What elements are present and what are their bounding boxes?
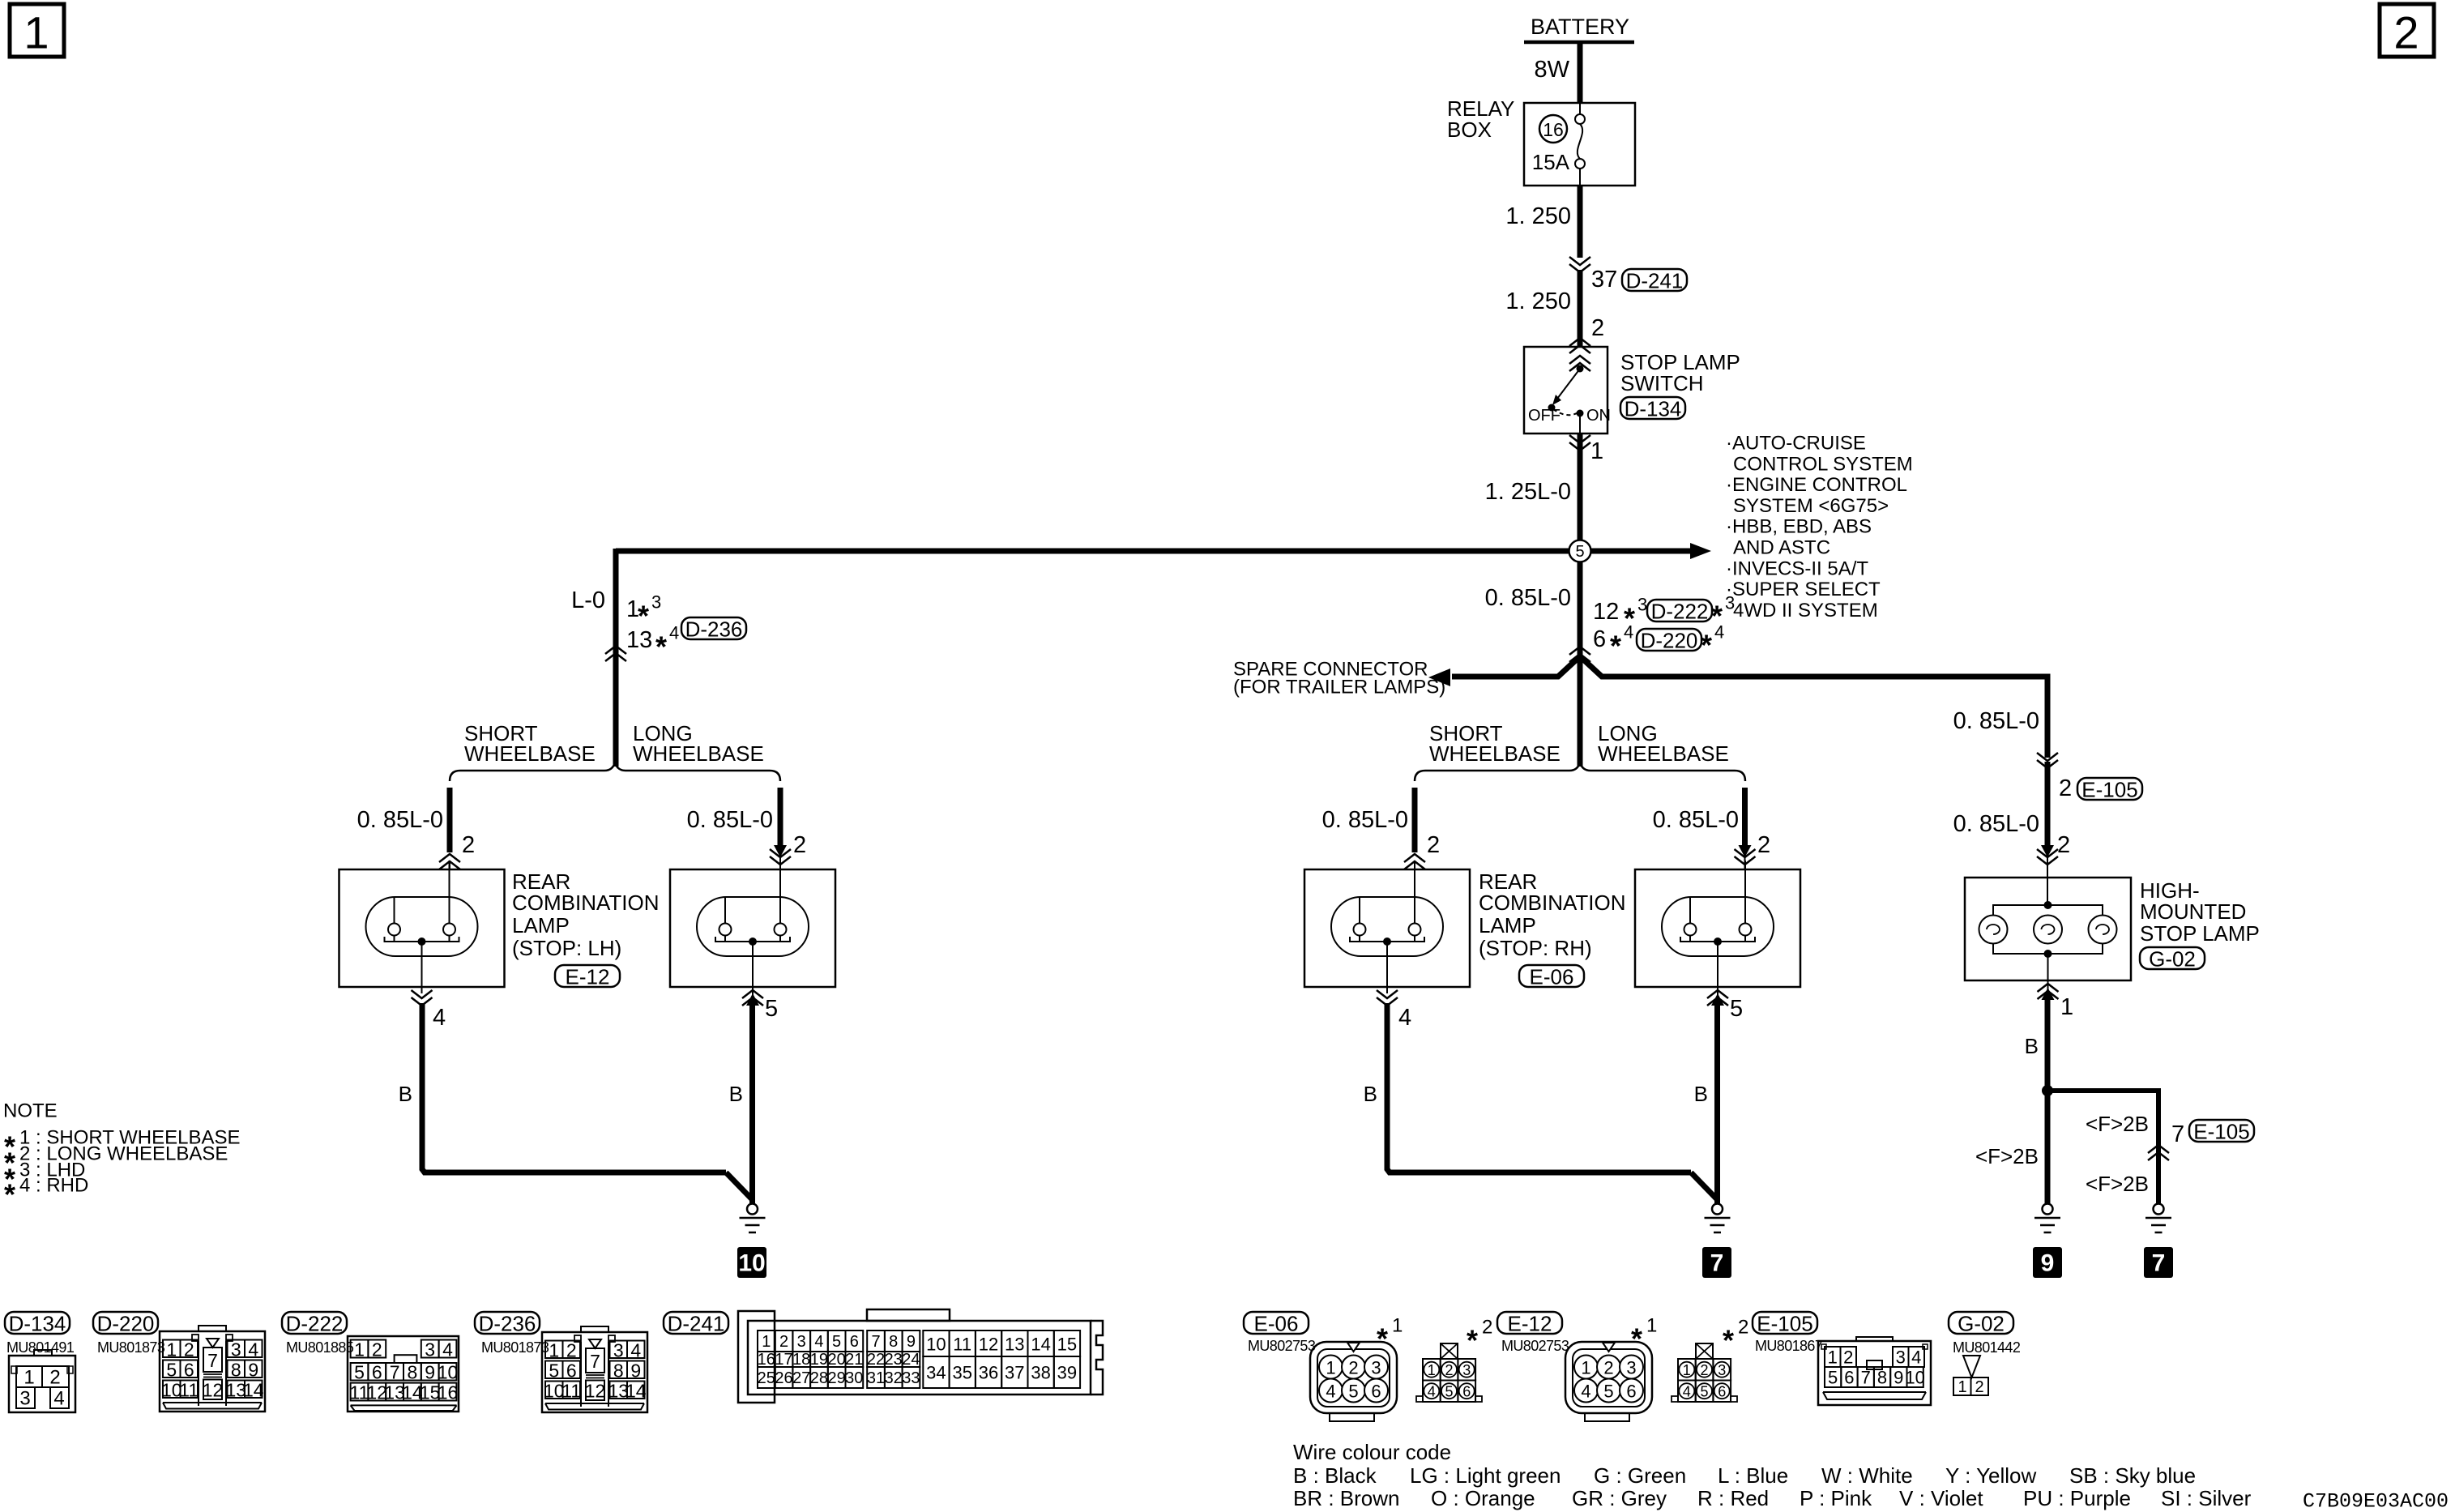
connector E-12 face drawing (6-pin sealed) bbox=[1565, 1342, 1652, 1421]
svg-text:6: 6 bbox=[1371, 1382, 1381, 1402]
svg-text:6: 6 bbox=[850, 1333, 859, 1351]
svg-text:15A: 15A bbox=[1532, 150, 1570, 174]
connector D-220 face drawing (14-pin) bbox=[160, 1326, 265, 1412]
svg-text:3: 3 bbox=[797, 1333, 806, 1351]
svg-text:(STOP: RH): (STOP: RH) bbox=[1479, 936, 1592, 960]
lamp rear-LH-short common bottom wire bbox=[385, 937, 459, 942]
svg-text:9: 9 bbox=[907, 1333, 916, 1351]
high-mounted stop lamp housing box bbox=[1965, 878, 2131, 980]
svg-text:B: B bbox=[399, 1082, 412, 1106]
svg-text:22: 22 bbox=[867, 1351, 885, 1369]
connector reference D-241 bbox=[1622, 269, 1687, 293]
svg-text:10: 10 bbox=[1905, 1368, 1924, 1388]
svg-text:D-241: D-241 bbox=[668, 1312, 725, 1336]
svg-text:2: 2 bbox=[49, 1367, 60, 1389]
svg-text:D-220: D-220 bbox=[97, 1312, 155, 1336]
svg-text:1: 1 bbox=[23, 1367, 34, 1389]
lamp rear-LH-long housing box bbox=[670, 869, 835, 987]
svg-text:36: 36 bbox=[979, 1363, 998, 1383]
lamp rear-LH-long bulb stadium outline bbox=[697, 897, 809, 956]
svg-text:PU : Purple: PU : Purple bbox=[2023, 1486, 2131, 1510]
high-mounted lamp top junction dot bbox=[2044, 901, 2052, 909]
svg-text:1: 1 bbox=[166, 1339, 177, 1360]
high-mounted lamp bottom junction dot bbox=[2044, 950, 2052, 958]
lamp rear-RH-short right filament coil bbox=[1409, 924, 1421, 936]
chevrons into E-06 pin 2 (short wheelbase) bbox=[1404, 854, 1425, 869]
svg-text:L : Blue: L : Blue bbox=[1718, 1463, 1788, 1488]
connector reference D-134 bbox=[1620, 397, 1685, 421]
svg-text:5: 5 bbox=[1603, 1382, 1613, 1402]
svg-text:4: 4 bbox=[1911, 1348, 1921, 1368]
svg-text:L-0: L-0 bbox=[571, 587, 605, 613]
svg-text:1: 1 bbox=[1828, 1348, 1838, 1368]
connector reference E-105 (ground side) bbox=[2189, 1120, 2254, 1144]
lamp rear-LH-short left filament coil bbox=[388, 924, 400, 936]
lamp rear-RH-long output lead to ground pin bbox=[1717, 942, 1718, 987]
arrow+chevrons into G-02 pin 2 bbox=[2041, 845, 2054, 857]
svg-text:2: 2 bbox=[793, 832, 806, 858]
svg-text:3: 3 bbox=[651, 592, 661, 613]
svg-text:4: 4 bbox=[248, 1339, 258, 1360]
svg-text:·ENGINE CONTROL: ·ENGINE CONTROL bbox=[1726, 474, 1907, 496]
svg-text:4: 4 bbox=[1581, 1382, 1590, 1402]
svg-text:*: * bbox=[4, 1178, 15, 1211]
svg-text:1: 1 bbox=[1590, 438, 1603, 464]
svg-text:E-105: E-105 bbox=[1757, 1312, 1812, 1336]
connector reference D-222 *3 bbox=[1647, 600, 1712, 624]
svg-text:29: 29 bbox=[827, 1369, 845, 1387]
svg-text:0. 85L-0: 0. 85L-0 bbox=[1953, 708, 2039, 734]
svg-text:12: 12 bbox=[979, 1335, 998, 1355]
relay box outline bbox=[1524, 103, 1635, 186]
ground symbol (RH lamps) bbox=[1705, 1204, 1731, 1233]
svg-text:7: 7 bbox=[1861, 1368, 1871, 1388]
svg-text:COMBINATION: COMBINATION bbox=[1479, 891, 1626, 915]
svg-text:*: * bbox=[1467, 1324, 1478, 1357]
svg-text:14: 14 bbox=[625, 1380, 647, 1401]
lamp rear-RH-long bulb stadium outline bbox=[1662, 897, 1774, 956]
wire D-241 to switch pin 2 (1.250) bbox=[1578, 270, 1583, 348]
svg-text:(FOR TRAILER LAMPS): (FOR TRAILER LAMPS) bbox=[1233, 677, 1445, 698]
svg-text:D-220: D-220 bbox=[1641, 629, 1698, 653]
svg-text:MU801491: MU801491 bbox=[6, 1339, 75, 1356]
svg-text:9: 9 bbox=[1894, 1368, 1903, 1388]
svg-text:23: 23 bbox=[885, 1351, 903, 1369]
svg-text:11: 11 bbox=[953, 1335, 971, 1355]
svg-text:SB : Sky blue: SB : Sky blue bbox=[2069, 1463, 2196, 1488]
connector D-236 face drawing (14-pin) bbox=[542, 1326, 647, 1412]
svg-text:11: 11 bbox=[179, 1379, 199, 1400]
svg-text:9: 9 bbox=[248, 1359, 258, 1380]
svg-text:7: 7 bbox=[390, 1362, 400, 1383]
svg-text:COMBINATION: COMBINATION bbox=[512, 891, 660, 915]
svg-text:5: 5 bbox=[765, 996, 778, 1022]
svg-text:WHEELBASE: WHEELBASE bbox=[1598, 741, 1729, 766]
diagonal joining to RH ground bbox=[1691, 1172, 1717, 1199]
chevrons leaving LH-long lamp pin 5 bbox=[752, 987, 754, 995]
svg-text:MU801442: MU801442 bbox=[1953, 1339, 2021, 1356]
svg-text:MU802753: MU802753 bbox=[1501, 1338, 1569, 1354]
svg-text:2: 2 bbox=[1445, 1362, 1453, 1378]
chevrons at E-105 pin 7 crossing bbox=[2148, 1145, 2169, 1160]
lamp rear-RH-short filament junction dot bbox=[1383, 938, 1391, 946]
lamp rear-RH-long common bottom wire bbox=[1680, 937, 1755, 942]
svg-text:4: 4 bbox=[669, 623, 679, 643]
connector reference D-220 (bottom row) bbox=[93, 1312, 158, 1336]
lamp rear-RH-long housing box bbox=[1635, 869, 1800, 987]
svg-text:26: 26 bbox=[775, 1369, 792, 1387]
lamp rear-RH-long left filament coil bbox=[1684, 924, 1697, 936]
svg-text:B: B bbox=[1364, 1082, 1377, 1106]
svg-text:0. 85L-0: 0. 85L-0 bbox=[1653, 807, 1739, 833]
lamp rear-RH-short common bottom wire bbox=[1350, 937, 1424, 942]
svg-text:6: 6 bbox=[1844, 1368, 1854, 1388]
svg-text:38: 38 bbox=[1031, 1363, 1050, 1383]
svg-text:B: B bbox=[729, 1082, 743, 1106]
connector E-06 alt face drawing (6-pin *2) bbox=[1416, 1343, 1482, 1402]
svg-text:3: 3 bbox=[1626, 1358, 1636, 1378]
wheelbase selection brace (left group) bbox=[450, 762, 780, 781]
svg-text:*: * bbox=[1610, 630, 1621, 663]
svg-text:E-105: E-105 bbox=[2081, 778, 2137, 802]
wire B from RH-long pin5 to ground bbox=[1714, 1003, 1720, 1204]
svg-text:Wire colour code: Wire colour code bbox=[1293, 1440, 1451, 1464]
svg-text:4: 4 bbox=[442, 1339, 453, 1360]
svg-text:LG : Light green: LG : Light green bbox=[1410, 1463, 1561, 1488]
svg-text:33: 33 bbox=[902, 1369, 920, 1387]
wire branch to E-105 pin 7 ground bbox=[2047, 1091, 2158, 1204]
svg-text:1: 1 bbox=[354, 1339, 365, 1360]
connector reference E-12 (bottom row) bbox=[1497, 1312, 1562, 1336]
lamp rear-RH-short output lead to ground pin bbox=[1386, 942, 1388, 987]
lamp rear-LH-short right filament coil bbox=[443, 924, 455, 936]
svg-text:1: 1 bbox=[549, 1339, 559, 1360]
svg-text:WHEELBASE: WHEELBASE bbox=[633, 741, 764, 766]
chevrons leaving LH-short lamp pin 4 bbox=[421, 987, 423, 993]
svg-text:C7B09E03AC00: C7B09E03AC00 bbox=[2303, 1490, 2449, 1512]
svg-text:13: 13 bbox=[1005, 1335, 1024, 1355]
svg-text:ON: ON bbox=[1586, 407, 1611, 425]
wire node5 down to Y-split (0.85L-0) bbox=[1578, 562, 1583, 658]
svg-text:6: 6 bbox=[184, 1359, 194, 1380]
svg-text:BATTERY: BATTERY bbox=[1531, 15, 1629, 39]
svg-text:3: 3 bbox=[1896, 1348, 1906, 1368]
chevrons leaving RH-long lamp pin 5 bbox=[1717, 987, 1718, 995]
wire switch pin1 to junction node 5 (1.25L-0) bbox=[1578, 434, 1583, 541]
svg-text:1: 1 bbox=[1326, 1358, 1335, 1378]
svg-text:3: 3 bbox=[231, 1339, 241, 1360]
high-mounted lamp bulb 2 bbox=[2034, 916, 2062, 944]
lamp rear-RH-short right filament lead (pin 2 feed) bbox=[1414, 861, 1415, 924]
lamp rear-RH-short bulb stadium outline bbox=[1331, 897, 1443, 956]
svg-text:9: 9 bbox=[630, 1360, 641, 1381]
svg-text:*: * bbox=[655, 630, 667, 664]
connector reference D-134 (bottom row) bbox=[5, 1312, 70, 1336]
svg-text:0. 85L-0: 0. 85L-0 bbox=[357, 807, 443, 833]
wire short-wheelbase stub (left group, 0.85L-0) bbox=[447, 788, 453, 852]
spare connector arrow (points left) bbox=[1428, 668, 1450, 686]
lamp rear-LH-long right filament lead (pin 2 feed) bbox=[779, 861, 781, 924]
svg-text:2: 2 bbox=[1591, 315, 1604, 341]
svg-text:2: 2 bbox=[1348, 1358, 1358, 1378]
svg-text:2: 2 bbox=[462, 832, 475, 858]
svg-text:MU801885: MU801885 bbox=[286, 1339, 354, 1356]
lamp rear-RH-short coil tails bbox=[1359, 935, 1360, 942]
ground reference box 9 bbox=[2033, 1247, 2062, 1278]
svg-text:G-02: G-02 bbox=[2149, 947, 2196, 972]
svg-text:6: 6 bbox=[1593, 626, 1606, 652]
wire long-wheelbase stub (right group) bbox=[1742, 788, 1748, 846]
svg-text:·INVECS-II 5A/T: ·INVECS-II 5A/T bbox=[1726, 557, 1868, 579]
svg-text:3: 3 bbox=[19, 1388, 30, 1410]
svg-text:8: 8 bbox=[231, 1359, 241, 1380]
svg-text:GR : Grey: GR : Grey bbox=[1572, 1486, 1667, 1510]
lamp rear-LH-short bulb stadium outline bbox=[366, 897, 478, 956]
svg-text:CONTROL SYSTEM: CONTROL SYSTEM bbox=[1733, 453, 1913, 475]
svg-text:D-134: D-134 bbox=[1625, 397, 1682, 421]
svg-text:12: 12 bbox=[203, 1380, 224, 1401]
chevrons leaving stop lamp switch pin 1 bbox=[1569, 435, 1590, 451]
lamp rear-LH-long left filament lead bbox=[724, 897, 726, 924]
svg-text:18: 18 bbox=[792, 1351, 810, 1369]
svg-text:SYSTEM <6G75>: SYSTEM <6G75> bbox=[1733, 495, 1889, 517]
svg-text:6: 6 bbox=[1718, 1384, 1726, 1400]
svg-text:2: 2 bbox=[184, 1339, 194, 1360]
switch common contact bbox=[1577, 365, 1584, 373]
svg-text:R : Red: R : Red bbox=[1697, 1486, 1769, 1510]
svg-text:7: 7 bbox=[2171, 1121, 2184, 1147]
svg-text:MU802753: MU802753 bbox=[1248, 1338, 1316, 1354]
svg-text:3: 3 bbox=[1718, 1362, 1726, 1378]
wire horizontal trunk from node 5 to left branch bbox=[616, 549, 1569, 554]
high-mounted lamp bulb 3 bbox=[2089, 916, 2117, 944]
ground symbol (LH lamps) bbox=[740, 1204, 766, 1233]
svg-text:1. 250: 1. 250 bbox=[1505, 203, 1571, 229]
svg-text:1: 1 bbox=[762, 1333, 771, 1351]
connector reference D-220 *4 bbox=[1637, 629, 1701, 653]
connector reference G-02 (bottom row) bbox=[1949, 1312, 2013, 1336]
svg-text:D-222: D-222 bbox=[286, 1312, 344, 1336]
svg-text:LAMP: LAMP bbox=[512, 913, 570, 938]
svg-text:<F>2B: <F>2B bbox=[2086, 1172, 2149, 1196]
svg-text:*: * bbox=[1631, 1322, 1642, 1356]
svg-text:7: 7 bbox=[1710, 1250, 1724, 1277]
ground reference box 7 (RH lamps) bbox=[1702, 1247, 1731, 1278]
svg-text:10: 10 bbox=[926, 1335, 946, 1355]
svg-text:6: 6 bbox=[1462, 1384, 1471, 1400]
chevrons leaving high-mounted lamp pin 1 bbox=[2047, 980, 2049, 990]
svg-text:16: 16 bbox=[438, 1382, 459, 1403]
lamp rear-LH-long coil tails bbox=[724, 935, 726, 942]
lamp rear-LH-long filament junction dot bbox=[749, 938, 757, 946]
svg-text:2: 2 bbox=[1738, 1317, 1748, 1339]
lamp rear-LH-short right filament lead (pin 2 feed) bbox=[449, 861, 450, 924]
high-mounted lamp feed lead bbox=[2047, 878, 2048, 905]
svg-text:8: 8 bbox=[408, 1362, 418, 1383]
svg-text:12: 12 bbox=[1593, 599, 1619, 625]
svg-text:14: 14 bbox=[243, 1379, 264, 1400]
svg-text:<F>2B: <F>2B bbox=[1975, 1144, 2039, 1168]
connector reference E-12 bbox=[555, 965, 620, 989]
svg-text:1: 1 bbox=[1958, 1378, 1966, 1396]
svg-text:28: 28 bbox=[810, 1369, 828, 1387]
svg-text:E-06: E-06 bbox=[1254, 1312, 1299, 1336]
svg-text:32: 32 bbox=[885, 1369, 903, 1387]
switch internal wire to pin 1 bbox=[1579, 413, 1581, 434]
svg-text:NOTE: NOTE bbox=[3, 1100, 58, 1122]
svg-text:2: 2 bbox=[1427, 832, 1440, 858]
wire trunk continues down to wheelbase brace bbox=[1578, 656, 1583, 767]
chevrons inside switch box bbox=[1569, 356, 1590, 371]
svg-text:2: 2 bbox=[2057, 832, 2070, 858]
svg-text:12: 12 bbox=[585, 1381, 606, 1402]
ground reference box 10 bbox=[737, 1247, 766, 1278]
svg-text:P : Pink: P : Pink bbox=[1800, 1486, 1872, 1510]
svg-text:4 : RHD: 4 : RHD bbox=[19, 1175, 88, 1197]
svg-text:37: 37 bbox=[1591, 267, 1617, 293]
svg-text:35: 35 bbox=[952, 1363, 971, 1383]
svg-text:2: 2 bbox=[1482, 1317, 1492, 1339]
svg-text:30: 30 bbox=[845, 1369, 863, 1387]
connector E-12 alt face drawing (6-pin *2) bbox=[1672, 1343, 1737, 1402]
connector D-241 pin 37 pass-through chevrons bbox=[1569, 257, 1590, 272]
wire long-wheelbase stub (left group, 0.85L-0) bbox=[778, 788, 783, 846]
svg-text:13: 13 bbox=[626, 627, 652, 653]
connector reference D-241 (bottom row) bbox=[664, 1312, 728, 1336]
svg-text:2: 2 bbox=[2059, 775, 2072, 801]
connector D-134 face drawing bbox=[9, 1350, 75, 1412]
wheelbase selection brace (right group) bbox=[1415, 762, 1745, 781]
lamp rear-LH-short coil tails bbox=[394, 935, 395, 942]
svg-text:4: 4 bbox=[1683, 1384, 1691, 1400]
lamp rear-RH-short left filament coil bbox=[1354, 924, 1366, 936]
connector D-241 face drawing (39-pin) bbox=[738, 1309, 1103, 1403]
svg-text:LAMP: LAMP bbox=[1479, 913, 1536, 938]
svg-text:4: 4 bbox=[1714, 622, 1724, 643]
svg-text:Y : Yellow: Y : Yellow bbox=[1945, 1463, 2037, 1488]
lamp rear-RH-long right filament lead (pin 2 feed) bbox=[1744, 861, 1746, 924]
svg-text:2: 2 bbox=[1757, 832, 1770, 858]
svg-text:E-06: E-06 bbox=[1530, 965, 1574, 989]
lamp rear-LH-short output lead to ground pin bbox=[421, 942, 423, 987]
svg-text:B: B bbox=[2025, 1034, 2039, 1058]
svg-text:10: 10 bbox=[438, 1362, 459, 1383]
svg-text:MU801873: MU801873 bbox=[97, 1339, 165, 1356]
svg-text:D-222: D-222 bbox=[1651, 600, 1709, 624]
wire B from LH-long pin5 to ground bbox=[749, 1003, 755, 1204]
svg-text:0. 85L-0: 0. 85L-0 bbox=[687, 807, 773, 833]
svg-text:(STOP: LH): (STOP: LH) bbox=[512, 936, 621, 960]
svg-text:BR : Brown: BR : Brown bbox=[1293, 1486, 1400, 1510]
ground symbol (high-mounted lamp direct) bbox=[2034, 1204, 2060, 1233]
svg-text:1: 1 bbox=[1646, 1315, 1657, 1337]
chevrons at D-236 crossing bbox=[605, 646, 626, 661]
svg-text:1: 1 bbox=[2060, 994, 2073, 1020]
svg-text:4: 4 bbox=[1398, 1005, 1411, 1031]
chevrons entering stop lamp switch connector bbox=[1569, 338, 1590, 353]
svg-text:2: 2 bbox=[2393, 7, 2419, 58]
svg-text:31: 31 bbox=[867, 1369, 885, 1387]
wire Y-split right diagonal to high-mounted stop lamp branch bbox=[1580, 656, 2047, 758]
svg-text:4: 4 bbox=[1428, 1384, 1436, 1400]
svg-text:4: 4 bbox=[53, 1388, 64, 1410]
svg-text:5: 5 bbox=[1730, 996, 1743, 1022]
svg-text:5: 5 bbox=[1445, 1384, 1453, 1400]
svg-text:2: 2 bbox=[1843, 1348, 1853, 1368]
svg-text:7: 7 bbox=[207, 1350, 218, 1371]
lamp rear-RH-short left filament lead bbox=[1359, 897, 1360, 924]
svg-text:14: 14 bbox=[1031, 1335, 1050, 1355]
svg-text:1: 1 bbox=[1428, 1362, 1436, 1378]
svg-text:9: 9 bbox=[2041, 1250, 2055, 1277]
connector E-105 face drawing (10-pin) bbox=[1818, 1337, 1931, 1405]
svg-text:E-12: E-12 bbox=[1508, 1312, 1552, 1336]
svg-text:MOUNTED: MOUNTED bbox=[2140, 899, 2246, 924]
svg-text:3: 3 bbox=[1371, 1358, 1381, 1378]
svg-text:5: 5 bbox=[1348, 1382, 1358, 1402]
svg-text:STOP LAMP: STOP LAMP bbox=[2140, 921, 2260, 946]
connector E-06 face drawing (6-pin sealed) bbox=[1310, 1342, 1397, 1421]
high-mounted lamp bulb 1 bbox=[1979, 916, 2008, 944]
svg-text:17: 17 bbox=[775, 1351, 792, 1369]
wire battery to relay box (8W) bbox=[1578, 42, 1583, 104]
chevrons at E-105 pin 2 crossing bbox=[2037, 753, 2058, 768]
svg-text:3: 3 bbox=[1725, 593, 1735, 613]
connector reference E-105 (bottom row) bbox=[1753, 1312, 1817, 1336]
svg-text:E-105: E-105 bbox=[2193, 1120, 2249, 1144]
svg-text:0. 85L-0: 0. 85L-0 bbox=[1485, 585, 1571, 611]
svg-text:25: 25 bbox=[758, 1369, 775, 1387]
svg-text:G-02: G-02 bbox=[1958, 1312, 2005, 1336]
svg-text:39: 39 bbox=[1057, 1363, 1077, 1383]
svg-text:1: 1 bbox=[1392, 1315, 1403, 1337]
svg-text:2: 2 bbox=[372, 1339, 382, 1360]
svg-text:<F>2B: <F>2B bbox=[2086, 1112, 2149, 1136]
lamp rear-LH-long common bottom wire bbox=[715, 937, 790, 942]
diagonal joining to LH ground bbox=[726, 1172, 752, 1199]
lamp rear-LH-short housing box bbox=[339, 869, 505, 987]
svg-text:D-241: D-241 bbox=[1626, 269, 1684, 293]
svg-text:·SUPER SELECT: ·SUPER SELECT bbox=[1726, 579, 1881, 600]
svg-text:8: 8 bbox=[1877, 1368, 1887, 1388]
page number box 1 (top-left) bbox=[10, 4, 64, 58]
svg-text:2: 2 bbox=[1603, 1358, 1613, 1378]
page number box 2 (top-right) bbox=[2380, 4, 2434, 58]
svg-text:16: 16 bbox=[1543, 119, 1564, 140]
wire colour code legend bbox=[1293, 1440, 2252, 1510]
switch OFF contact dot bbox=[1548, 404, 1556, 412]
svg-text:37: 37 bbox=[1005, 1363, 1024, 1383]
svg-text:WHEELBASE: WHEELBASE bbox=[1429, 741, 1561, 766]
wire Y-split left diagonal bbox=[1452, 656, 1580, 677]
svg-text:8: 8 bbox=[613, 1360, 624, 1381]
svg-text:2: 2 bbox=[1975, 1378, 1983, 1396]
svg-text:SI : Silver: SI : Silver bbox=[2161, 1486, 2252, 1510]
svg-text:·HBB, EBD, ABS: ·HBB, EBD, ABS bbox=[1726, 516, 1872, 538]
svg-text:8: 8 bbox=[889, 1333, 898, 1351]
svg-text:5: 5 bbox=[1700, 1384, 1708, 1400]
svg-text:G : Green: G : Green bbox=[1594, 1463, 1686, 1488]
svg-text:V : Violet: V : Violet bbox=[1899, 1486, 1983, 1510]
wire E-105 to high-mounted lamp (0.85L-0) bbox=[2045, 762, 2051, 846]
lamp rear-RH-long coil tails bbox=[1689, 935, 1691, 942]
connector G-02 face drawing (2-pin) bbox=[1953, 1356, 1988, 1396]
svg-text:0. 85L-0: 0. 85L-0 bbox=[1953, 811, 2039, 837]
svg-text:15: 15 bbox=[1057, 1335, 1077, 1355]
svg-text:0. 85L-0: 0. 85L-0 bbox=[1322, 807, 1408, 833]
svg-text:2: 2 bbox=[566, 1339, 577, 1360]
svg-text:5: 5 bbox=[166, 1359, 177, 1380]
